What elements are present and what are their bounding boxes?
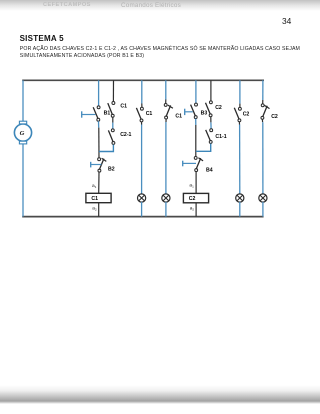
top supply rail wire [22, 79, 264, 81]
wire: branch8 down to lamp [261, 120, 263, 123]
wire: below B3 (blue then black) to B4 [195, 119, 197, 125]
wire: lamp H4 to bottom rail [262, 202, 264, 217]
svg-text:C1: C1 [146, 111, 153, 117]
svg-text:C2: C2 [271, 114, 278, 120]
generator G [14, 121, 31, 144]
wire: branch1 stub from top rail [98, 80, 100, 106]
bottom return rail wire [22, 216, 263, 218]
wire: lamp H3 to bottom rail [239, 202, 241, 217]
svg-text:a1: a1 [92, 184, 97, 189]
wire: branch4 down to lamp [165, 119, 167, 122]
pushbutton B4 (NC) [183, 156, 203, 171]
wire: coil C1 to bottom rail [98, 203, 100, 217]
lamp H2 [162, 194, 170, 202]
top page-edge shadow gradient [0, 0, 320, 11]
page number 34 [282, 16, 291, 26]
contact C1-1 (NO) [206, 129, 213, 144]
header center: document title [121, 2, 181, 9]
wire: below B1 (blue then black) to B2 [98, 121, 100, 127]
svg-text:a2: a2 [190, 207, 195, 212]
wire: lamp H1 to bottom rail [141, 202, 143, 217]
svg-text:G: G [20, 130, 25, 137]
header left: institution name [43, 2, 91, 8]
wire: between C1 and C2-1 [112, 117, 114, 122]
wire: left branch lower (generator to bottom rail) [22, 144, 24, 217]
svg-text:C2: C2 [243, 111, 250, 117]
lamp H4 [259, 194, 267, 202]
wire: branch2 stub from top rail (black) [112, 80, 114, 101]
wire: branch5 stub from top rail [195, 80, 197, 103]
svg-text:C1: C1 [91, 196, 98, 202]
svg-text:B2: B2 [108, 167, 115, 173]
wire: coil C2 to bottom rail [195, 203, 197, 217]
contact C2 (NO) branch7 [234, 107, 241, 121]
lamp H3 [236, 194, 244, 202]
contact C1 aux (NO) branch2 [108, 102, 115, 118]
wire: branch4 stub from top rail [165, 80, 167, 99]
svg-text:C1: C1 [175, 113, 182, 119]
contact C2-1 (NO) [108, 129, 114, 144]
wire: lamp H2 to bottom rail [165, 202, 167, 217]
svg-text:C2-1: C2-1 [120, 132, 131, 138]
contact C2 (NC) branch8 [261, 104, 270, 119]
bottom page-edge shadow gradient [0, 385, 320, 401]
svg-text:a1: a1 [189, 184, 194, 189]
wire: elbow from C1-1 to branch5 junction [196, 144, 211, 152]
wire: branch3 stub from top rail [141, 80, 143, 103]
svg-text:C2: C2 [189, 196, 196, 202]
wire: branch7 down to lamp [238, 122, 240, 125]
svg-text:C1-1: C1-1 [215, 134, 226, 140]
wire: B4 to coil C2 [195, 172, 197, 194]
wire: B2 to coil C1 [98, 172, 100, 193]
wire: branch8 stub from top rail corner [262, 80, 264, 100]
wire: between C2 and C1-1 [210, 117, 212, 122]
wire: left branch upper (rail to generator) [22, 80, 24, 121]
pushbutton B3 (NO) [185, 103, 198, 118]
svg-text:C2: C2 [215, 105, 222, 111]
contact C1 (NC) branch4 [164, 103, 173, 119]
svg-text:a2: a2 [92, 207, 97, 212]
wire: branch3 down to lamp [141, 122, 143, 125]
pushbutton B2 (NC) [91, 158, 107, 172]
contact C2 aux (NO) branch6 [206, 101, 213, 117]
coil C1 [86, 193, 111, 202]
pushbutton B1 (NO) [82, 106, 100, 121]
wire: branch7 stub from top rail [239, 80, 241, 103]
wire: elbow from C2-1 to branch1 junction [99, 145, 114, 152]
coil C2 [183, 193, 208, 202]
svg-text:C1: C1 [120, 103, 127, 109]
body paragraph [20, 46, 300, 61]
svg-text:B3: B3 [201, 110, 208, 116]
section title [20, 34, 64, 43]
contact C1 (NO) branch3 [136, 107, 143, 122]
svg-text:B1: B1 [104, 111, 111, 117]
wire: branch6 stub from top rail (black) [210, 80, 212, 101]
lamp H1 [138, 194, 146, 202]
svg-text:B4: B4 [206, 167, 213, 173]
